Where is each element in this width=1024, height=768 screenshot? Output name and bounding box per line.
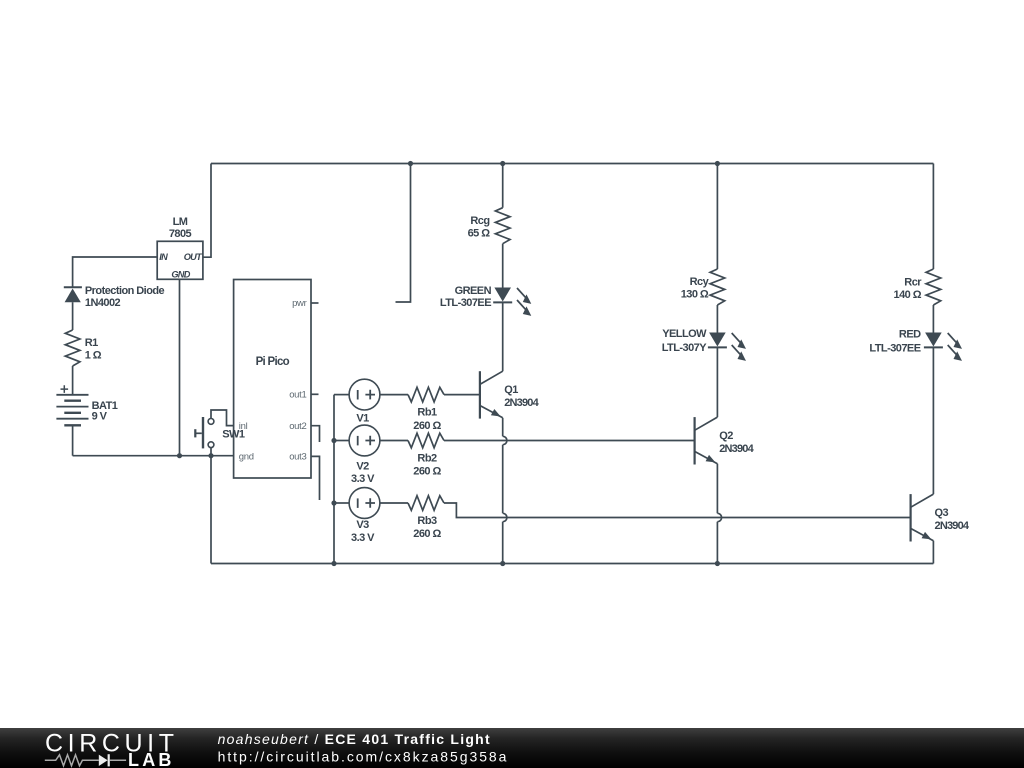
battery BAT1 9 V — [61, 385, 69, 393]
wire SW1 to Pi Pico inl pin — [211, 410, 234, 426]
transistor Q1 2N3904 — [479, 371, 481, 418]
footer bar — [0, 728, 1024, 768]
wire Q3 emitter to bottom rail — [932, 541, 934, 564]
svg-text:Q2: Q2 — [719, 430, 733, 442]
wire Q2 emitter to bottom rail with hop — [716, 464, 718, 514]
node top rail / pwr branch — [408, 161, 413, 166]
wire rail to V3 — [334, 502, 349, 504]
svg-text:7805: 7805 — [169, 228, 192, 240]
wire Q1 emitter to bottom rail with hops — [502, 418, 504, 437]
wire Rb3 to Q3 base — [444, 503, 911, 518]
svg-text:260 Ω: 260 Ω — [413, 465, 441, 477]
wire voltage source left rail — [333, 395, 335, 564]
svg-text:1N4002: 1N4002 — [85, 297, 121, 309]
svg-text:Rcr: Rcr — [904, 277, 922, 289]
svg-text:LTL-307EE: LTL-307EE — [869, 343, 920, 355]
svg-text:V3: V3 — [356, 519, 369, 531]
wire Rcr to RED LED — [932, 305, 934, 333]
voltage source V2 3.3 V — [349, 425, 380, 456]
svg-text:65 Ω: 65 Ω — [468, 228, 491, 240]
wire GREEN LED to Q1 collector — [502, 303, 504, 371]
diode D1 Protection Diode 1N4002 — [64, 286, 82, 288]
svg-text:Rcy: Rcy — [690, 276, 710, 288]
svg-text:140 Ω: 140 Ω — [894, 289, 922, 301]
resistor Rcr 140 Ω — [926, 269, 941, 305]
svg-text:2N3904: 2N3904 — [719, 443, 754, 455]
microcontroller Pi Pico box — [234, 280, 311, 479]
resistor Rb3 260 Ω — [408, 496, 444, 511]
wire RED LED to Q3 collector — [932, 348, 934, 494]
wire LM7805 GND down to ground rail — [179, 279, 181, 455]
wire Rb2 to Q2 base — [444, 440, 695, 442]
pin out2 stub — [311, 426, 320, 442]
wire battery column to LM7805 IN — [73, 257, 158, 287]
wire diode to R1 — [72, 302, 74, 330]
wire V1 to Rb1 — [380, 394, 408, 396]
svg-text:2N3904: 2N3904 — [935, 520, 970, 532]
CircuitLab logo doodle diode — [99, 755, 108, 766]
svg-text:out2: out2 — [289, 421, 306, 432]
svg-text:gnd: gnd — [239, 452, 254, 463]
wire Rb1 to Q1 base — [444, 394, 480, 396]
node V rail / V2 — [331, 438, 336, 443]
svg-text:YELLOW: YELLOW — [662, 328, 707, 340]
svg-text:Pi Pico: Pi Pico — [256, 356, 290, 368]
svg-text:3.3 V: 3.3 V — [351, 473, 375, 485]
wire Rcg to GREEN LED — [502, 244, 504, 288]
wire top rail branch to pwr stub — [396, 164, 411, 303]
node ground rail / LM GND — [177, 453, 182, 458]
svg-text:LM: LM — [173, 216, 188, 228]
transistor Q3 2N3904 — [909, 494, 911, 541]
node top rail / Rcg branch — [500, 161, 505, 166]
svg-text:IN: IN — [159, 252, 168, 262]
wire V2 to Rb2 — [380, 440, 408, 442]
svg-text:GREEN: GREEN — [455, 285, 492, 297]
LED YELLOW LTL-307Y — [709, 333, 726, 347]
node V rail / V3 — [331, 500, 336, 505]
wire SW1 to ground rail and down to bottom rail — [210, 448, 212, 564]
pin out3 stub — [311, 456, 320, 500]
wire LM7805 OUT to top rail — [203, 164, 211, 258]
svg-text:130 Ω: 130 Ω — [681, 289, 709, 301]
wire V3 to Rb3 — [380, 502, 408, 504]
wire R1 to BAT1 — [72, 366, 74, 395]
resistor Rcg 65 Ω — [495, 208, 510, 244]
voltage regulator U1 LM7805 box — [157, 241, 203, 279]
svg-text:LTL-307EE: LTL-307EE — [440, 297, 491, 309]
LED RED LTL-307EE — [925, 333, 942, 347]
resistor Rcy 130 Ω — [710, 269, 725, 305]
node bottom rail / V rail — [331, 561, 336, 566]
node bottom rail / Q1 emitter — [500, 561, 505, 566]
wire BAT1 to ground rail — [72, 425, 74, 455]
wire ground rail — [73, 455, 234, 457]
svg-text:out1: out1 — [289, 389, 306, 400]
resistor Rb2 260 Ω — [408, 433, 444, 448]
svg-text:R1: R1 — [85, 337, 98, 349]
wire Rcy to YELLOW LED — [716, 305, 718, 333]
pin pwr stub — [311, 302, 319, 304]
svg-text:out3: out3 — [289, 452, 306, 463]
node ground rail / SW1 — [208, 453, 213, 458]
LED GREEN LTL-307EE — [494, 288, 511, 302]
svg-text:Rb3: Rb3 — [417, 515, 437, 527]
wire top rail to Rcy — [716, 164, 718, 270]
svg-text:LTL-307Y: LTL-307Y — [662, 342, 708, 354]
wire top rail to Rcr — [932, 164, 934, 270]
svg-text:Rcg: Rcg — [470, 215, 489, 227]
resistor Rb1 260 Ω — [408, 387, 444, 402]
wire top rail to Rcg — [502, 164, 504, 208]
node top rail / Rcy branch — [715, 161, 720, 166]
svg-text:260 Ω: 260 Ω — [413, 528, 441, 540]
svg-text:2N3904: 2N3904 — [504, 397, 539, 409]
svg-text:Rb2: Rb2 — [417, 452, 437, 464]
svg-text:GND: GND — [171, 269, 190, 279]
svg-text:260 Ω: 260 Ω — [413, 420, 441, 432]
CircuitLab logo doodle resistor — [45, 755, 99, 766]
svg-text:pwr: pwr — [292, 298, 307, 309]
voltage source V1 — [349, 379, 380, 410]
switch SW1 pushbutton — [208, 419, 214, 425]
svg-text:1 Ω: 1 Ω — [85, 350, 102, 362]
resistor R1 1 Ω — [65, 330, 80, 366]
svg-text:Protection Diode: Protection Diode — [85, 285, 165, 297]
pin out1 stub — [311, 393, 319, 395]
svg-text:OUT: OUT — [184, 252, 203, 262]
svg-text:Rb1: Rb1 — [417, 407, 437, 419]
svg-text:RED: RED — [899, 329, 921, 341]
wire top supply rail — [211, 163, 933, 165]
svg-text:3.3 V: 3.3 V — [351, 532, 375, 544]
node bottom rail / Q2 emitter — [715, 561, 720, 566]
svg-text:V1: V1 — [356, 413, 369, 425]
wire rail to V2 — [334, 440, 349, 442]
svg-text:Q1: Q1 — [504, 384, 518, 396]
svg-text:inl: inl — [239, 421, 248, 432]
svg-text:V2: V2 — [356, 461, 369, 473]
wire rail to V1 — [334, 394, 349, 396]
wire YELLOW LED to Q2 collector — [716, 348, 718, 417]
svg-text:Q3: Q3 — [935, 507, 949, 519]
transistor Q2 2N3904 — [693, 417, 695, 464]
voltage source V3 3.3 V — [349, 488, 380, 519]
svg-text:9 V: 9 V — [92, 411, 108, 423]
wire bottom ground rail — [211, 563, 933, 565]
